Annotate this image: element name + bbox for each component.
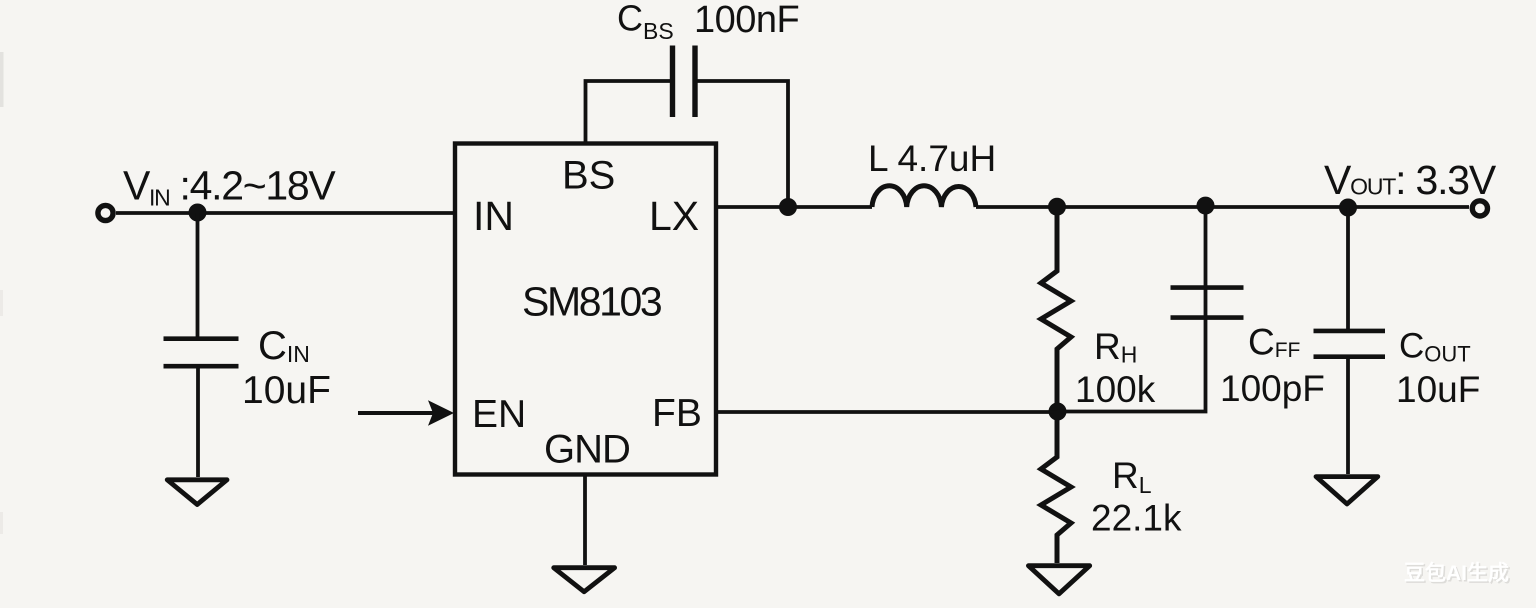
wire COUT to ground — [1346, 357, 1350, 474]
wire LX pin to inductor — [716, 205, 872, 209]
node RH top junction dot — [1048, 198, 1066, 216]
wire FB pin to divider node — [716, 410, 1057, 414]
arrowhead EN — [428, 400, 454, 426]
node CFF top junction dot — [1197, 197, 1215, 215]
wire EN arrow — [358, 411, 437, 415]
ground (RL) — [1028, 566, 1089, 594]
watermark — [1404, 561, 1511, 587]
inductor L — [872, 186, 976, 207]
edge smudge bottom-left — [0, 512, 3, 534]
svg-text:BS: BS — [562, 154, 615, 198]
capacitor CBS — [673, 46, 696, 118]
capacitor CFF — [1171, 288, 1244, 318]
wire BS pin up — [586, 81, 671, 144]
svg-text:豆包AI生成: 豆包AI生成 — [1404, 561, 1509, 585]
svg-text:FB: FB — [652, 392, 702, 435]
svg-text:VOUT: 3.3V: VOUT: 3.3V — [1324, 157, 1497, 203]
capacitor COUT — [1314, 331, 1386, 357]
svg-text:22.1k: 22.1k — [1091, 498, 1182, 539]
node FB junction dot — [1049, 403, 1067, 421]
edge smudge mid-left — [0, 290, 3, 316]
svg-text:IN: IN — [473, 193, 514, 239]
input terminal circle — [98, 205, 113, 220]
resistor RH — [1041, 207, 1071, 411]
wire CFF top to rail — [1204, 207, 1208, 288]
ground (CIN) — [167, 480, 227, 505]
wire inductor to VOUT rail — [976, 205, 1469, 209]
IC U1 SM8103 box — [455, 144, 716, 475]
wire VOUT node down to COUT — [1346, 208, 1350, 329]
svg-text:10uF: 10uF — [242, 369, 331, 412]
svg-text:LX: LX — [649, 193, 699, 239]
wire CIN to ground — [196, 366, 200, 477]
svg-text:L 4.7uH: L 4.7uH — [868, 138, 996, 179]
resistor RL — [1041, 412, 1071, 563]
svg-text:GND: GND — [544, 428, 630, 472]
svg-text:10uF: 10uF — [1396, 369, 1480, 410]
svg-text:100nF: 100nF — [694, 0, 799, 41]
svg-text:100k: 100k — [1075, 369, 1156, 410]
capacitor CIN — [164, 339, 239, 367]
svg-text:EN: EN — [472, 393, 526, 436]
wire input to IN pin — [116, 211, 455, 215]
wire CBS to LX node — [697, 81, 788, 207]
node VOUT junction dot — [1339, 199, 1357, 217]
wire GND pin to ground — [583, 475, 587, 565]
node LX junction dot — [779, 198, 797, 216]
ground (GND pin) — [554, 568, 615, 592]
ground (COUT) — [1316, 477, 1378, 504]
svg-text:100pF: 100pF — [1220, 368, 1325, 409]
wire VIN node down to CIN — [196, 213, 200, 337]
node VIN junction dot — [189, 204, 207, 222]
output terminal circle — [1472, 201, 1487, 216]
wire FB node to CFF — [1057, 287, 1206, 412]
svg-text:SM8103: SM8103 — [522, 279, 661, 325]
edge smudge top-left — [0, 52, 4, 107]
